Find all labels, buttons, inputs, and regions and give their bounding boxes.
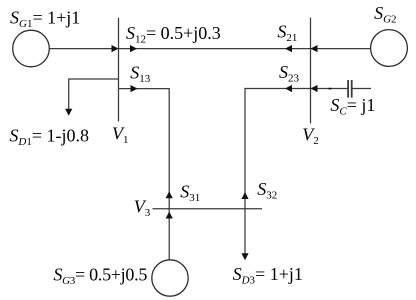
svg-text:SC= j1: SC= j1	[330, 95, 375, 118]
